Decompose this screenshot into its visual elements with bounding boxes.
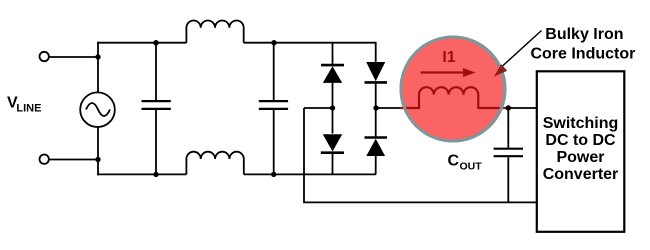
svg-text:OUT: OUT	[460, 160, 483, 172]
svg-text:LINE: LINE	[16, 102, 41, 114]
svg-text:Core Inductor: Core Inductor	[530, 46, 635, 63]
svg-text:I1: I1	[442, 49, 455, 66]
svg-text:Power: Power	[556, 149, 604, 166]
svg-text:Converter: Converter	[543, 166, 619, 183]
svg-text:DC to DC: DC to DC	[545, 132, 616, 149]
svg-text:C: C	[448, 152, 460, 169]
svg-text:Switching: Switching	[543, 115, 619, 132]
svg-text:Bulky Iron: Bulky Iron	[545, 26, 623, 43]
